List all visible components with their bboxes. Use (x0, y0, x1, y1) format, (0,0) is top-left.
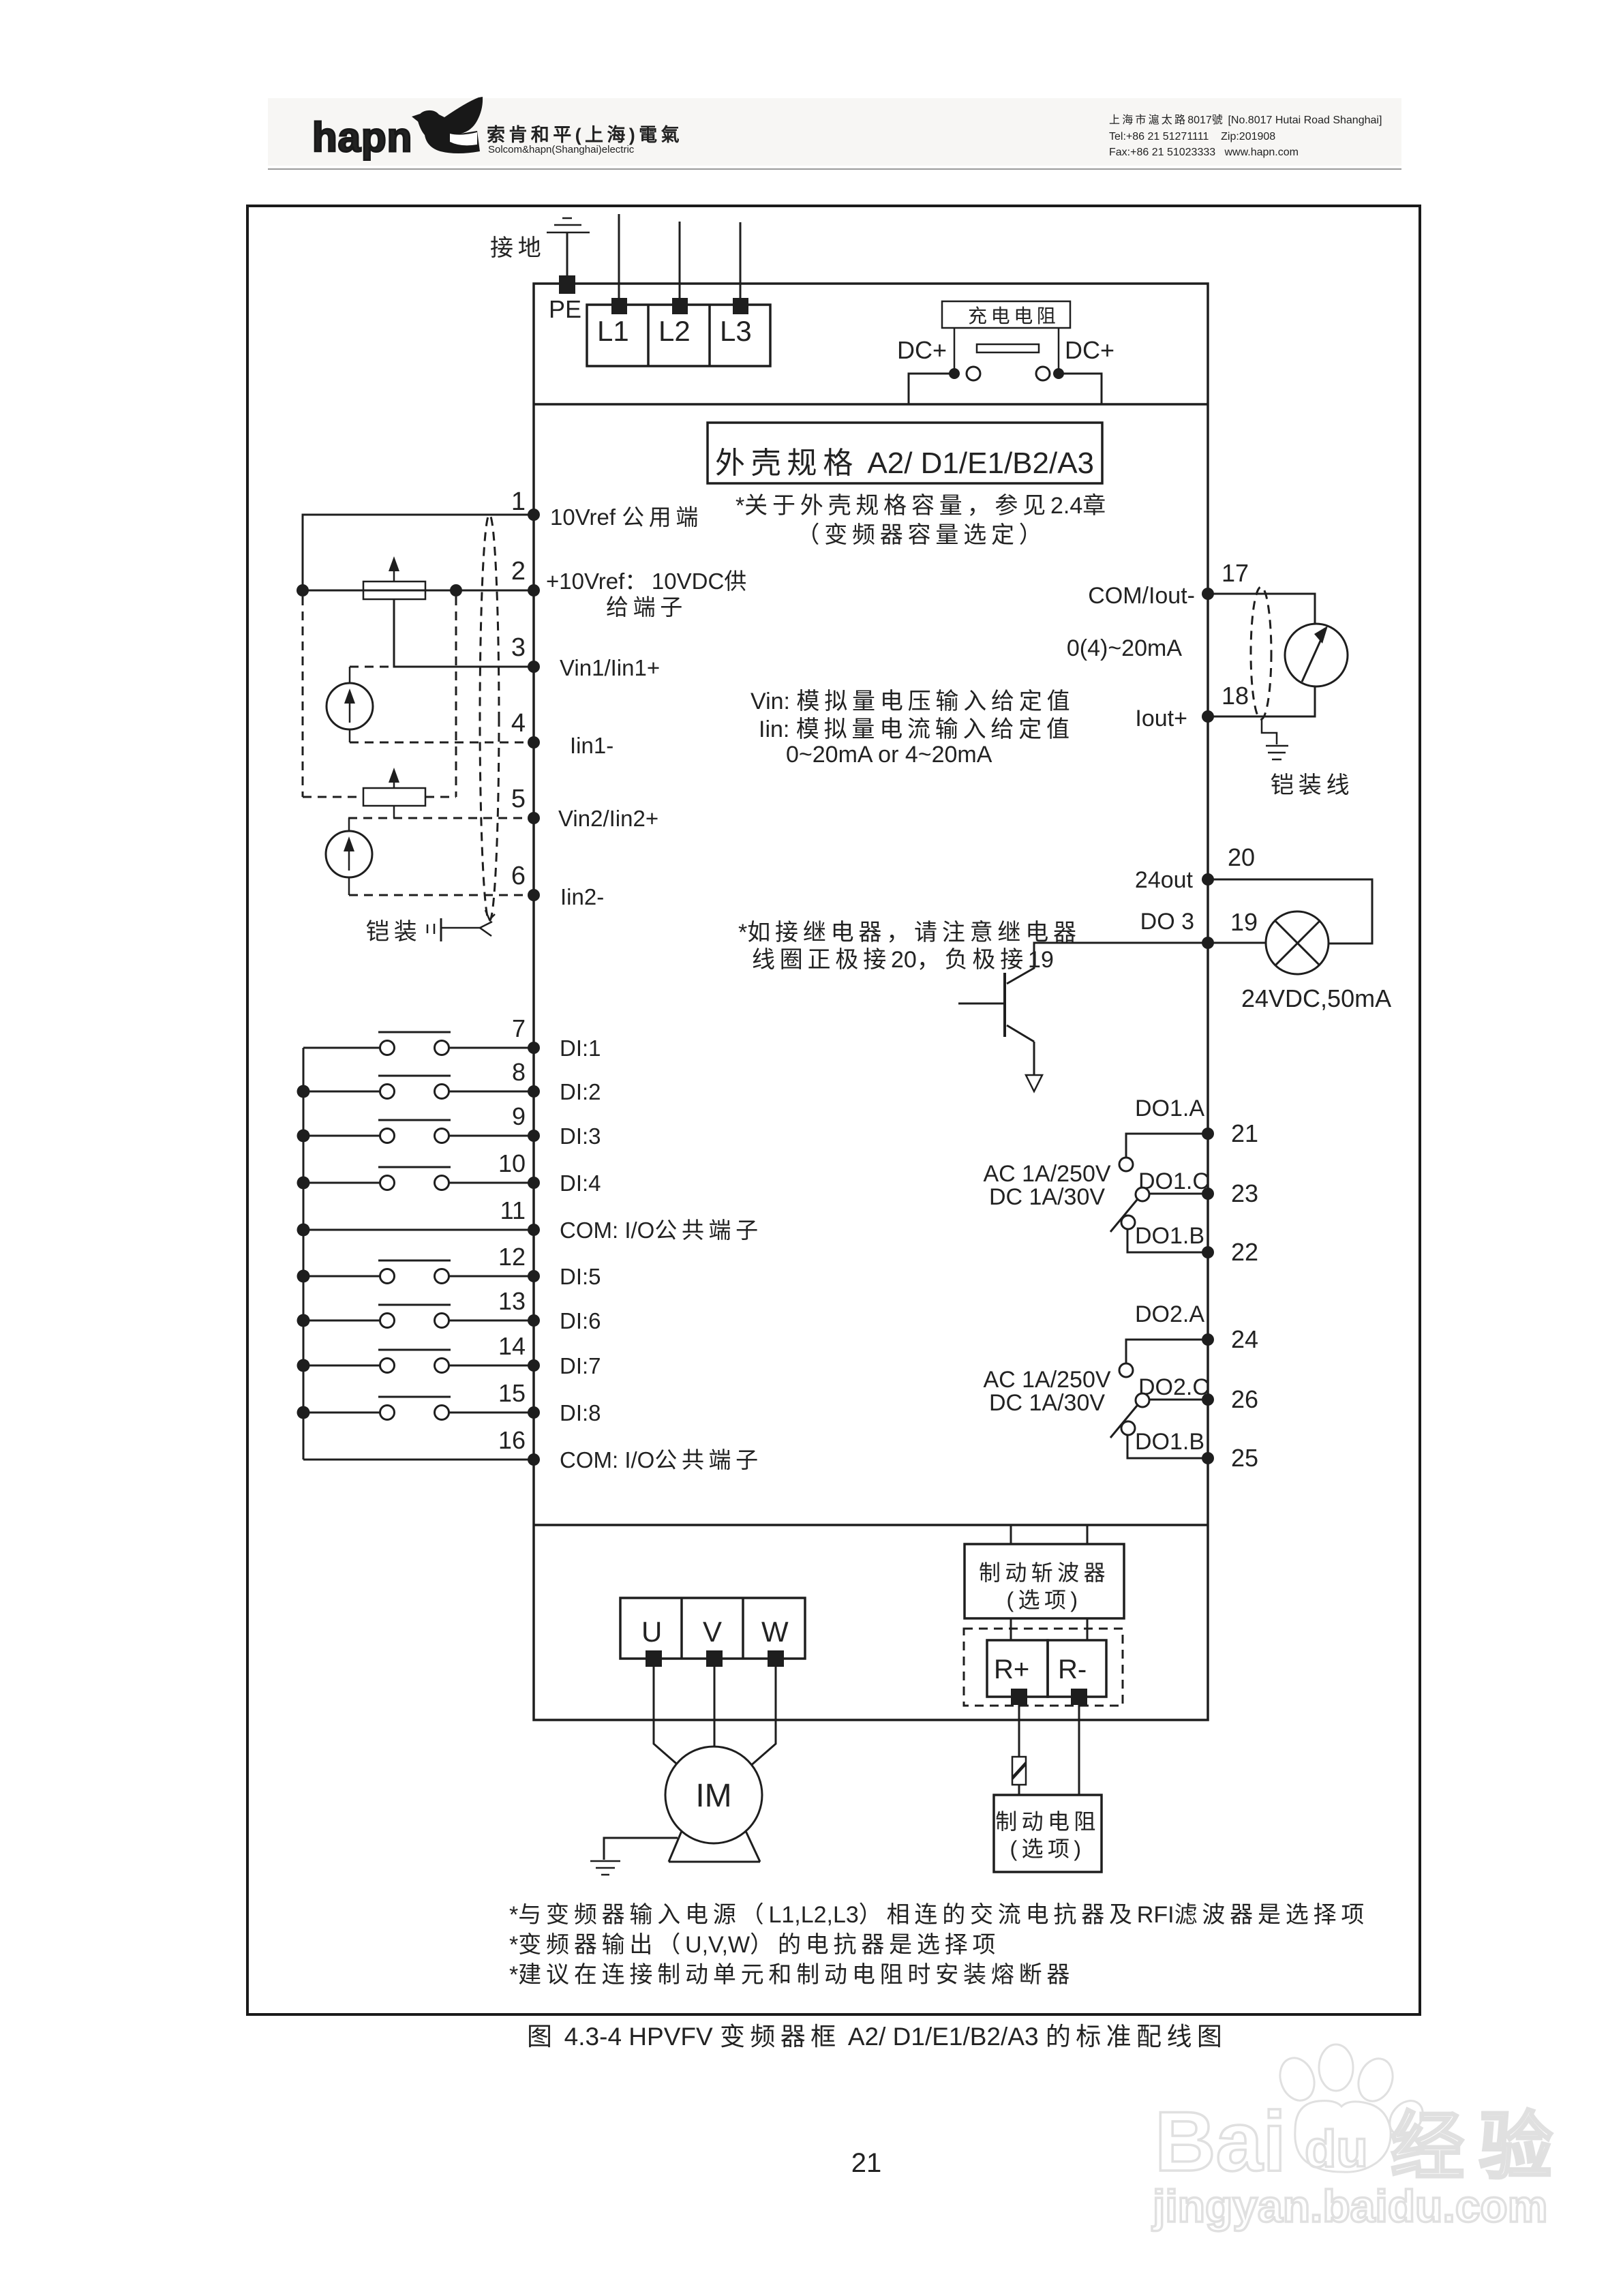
switch contact circles row 10 (380, 1176, 395, 1190)
svg-text:线圈正极接20，负极接19: 线圈正极接20，负极接19 (752, 947, 1054, 973)
transistor emitter open arrow (1026, 1075, 1042, 1091)
svg-text:COM: I/O公共端子: COM: I/O公共端子 (560, 1447, 763, 1472)
watermark baidu (1151, 2044, 1567, 2231)
terminal 7 row (303, 1047, 380, 1049)
frame size box 外壳规格 (708, 423, 1102, 483)
terminal square W (768, 1650, 784, 1667)
svg-text:6: 6 (511, 862, 526, 890)
switch lever row 12 (378, 1260, 451, 1262)
dashed drop from junction 2 right (455, 596, 457, 797)
charging resistor label box 充电电阻 (942, 301, 1070, 328)
svg-text:(选项): (选项) (1007, 1588, 1082, 1612)
shield ground symbol right (1266, 746, 1288, 759)
current source 2 (348, 818, 350, 832)
svg-text:Tel:+86 21 51271111 Zip:201: Tel:+86 21 51271111 Zip:201908 (1109, 131, 1275, 142)
terminal 5 dot (528, 812, 540, 824)
svg-text:7: 7 (512, 1014, 526, 1042)
terminal 4 dot (528, 736, 540, 749)
switch lever row 8 (378, 1075, 451, 1077)
svg-text:充电电阻: 充电电阻 (968, 305, 1059, 327)
svg-text:21: 21 (851, 2148, 882, 2178)
potentiometer P1 body (363, 581, 425, 599)
terminal 25 dot (1202, 1452, 1214, 1464)
svg-text:制动斩波器: 制动斩波器 (979, 1560, 1110, 1585)
svg-text:16: 16 (498, 1426, 526, 1454)
terminal 19 dot (1202, 937, 1214, 949)
junction dot wire2 left (297, 584, 309, 596)
svg-text:经验: 经验 (1391, 2105, 1567, 2188)
shield arrow tick (480, 922, 492, 936)
contact circle DO1.B (1121, 1215, 1135, 1229)
svg-text:V: V (703, 1616, 722, 1648)
svg-text:L1: L1 (597, 315, 629, 347)
dashed wire to terminal 4 (350, 742, 534, 744)
dashed drop from junction 2 left (302, 596, 304, 797)
svg-text:IM: IM (695, 1778, 731, 1814)
terminal 13 row (303, 1320, 380, 1322)
svg-text:24VDC,50mA: 24VDC,50mA (1241, 984, 1391, 1012)
svg-text:26: 26 (1231, 1385, 1258, 1413)
svg-text:22: 22 (1231, 1238, 1258, 1266)
dashed wire terminal 5 (348, 817, 534, 819)
svg-text:PE: PE (549, 295, 581, 323)
contact circle DO1.A (1119, 1158, 1133, 1171)
svg-text:Vin2/Iin2+: Vin2/Iin2+ (558, 806, 658, 831)
svg-text:图 4.3-4 HPVFV 变频器框 A2/ D1/E1/B: 图 4.3-4 HPVFV 变频器框 A2/ D1/E1/B2/A3 的标准配线… (527, 2023, 1227, 2051)
junction dot wire2 right (450, 584, 462, 596)
junction dot DC+ right (1053, 368, 1064, 379)
shield drain wire (1262, 719, 1277, 744)
bus junction dot row 10 (297, 1177, 310, 1190)
svg-text:11: 11 (500, 1196, 526, 1224)
wire DO1.C (1149, 1193, 1208, 1195)
svg-text:L2: L2 (658, 315, 691, 347)
transistor Q1 (1003, 973, 1006, 1037)
svg-text:L3: L3 (720, 315, 752, 347)
svg-text:DI:6: DI:6 (560, 1308, 601, 1333)
svg-text:U: U (641, 1616, 662, 1648)
shield ground marks (427, 924, 429, 933)
svg-text:DO1.B: DO1.B (1135, 1429, 1204, 1455)
svg-text:18: 18 (1222, 682, 1249, 710)
switch contact circles row 15 (380, 1406, 395, 1420)
potentiometer P1 arrow (393, 564, 395, 581)
switch lever row 7 (378, 1031, 451, 1033)
svg-text:DI:7: DI:7 (560, 1353, 601, 1378)
brake resistor box 制动电阻 (994, 1795, 1102, 1872)
svg-text:*建议在连接制动单元和制动电阻时安装熔断器: *建议在连接制动单元和制动电阻时安装熔断器 (509, 1962, 1074, 1988)
terminal 16 row (303, 1459, 534, 1461)
svg-text:Vin1/Iin1+: Vin1/Iin1+ (560, 655, 660, 680)
wire from box to DC+ right (1058, 328, 1060, 374)
switch lever row 9 (378, 1119, 451, 1121)
svg-text:9: 9 (512, 1102, 526, 1130)
svg-text:DO1.B: DO1.B (1135, 1223, 1204, 1249)
svg-text:12: 12 (498, 1243, 526, 1271)
motor wire U (654, 1667, 680, 1767)
terminal 9 row (303, 1135, 380, 1137)
wire terminal 19 to transistor (1007, 943, 1208, 984)
svg-text:*与变频器输入电源（L1,L2,L3）相连的交流电抗器及RF: *与变频器输入电源（L1,L2,L3）相连的交流电抗器及RFI滤波器是选择项 (509, 1902, 1369, 1928)
wire DC+ right down (1059, 374, 1102, 404)
dashed lead to pot P2 right (425, 796, 456, 798)
ground wire to PE (566, 232, 568, 277)
wire terminal 18 to meter (1208, 686, 1315, 716)
svg-text:5: 5 (511, 785, 526, 813)
switch lever row 13 (378, 1304, 451, 1306)
svg-text:接地: 接地 (490, 235, 546, 261)
wire terminal 20 to lamp (1208, 879, 1372, 943)
terminal 12 row (303, 1275, 380, 1278)
svg-text:R-: R- (1058, 1655, 1087, 1685)
svg-text:DC+: DC+ (897, 336, 947, 364)
bus junction dot row 12 (297, 1270, 310, 1283)
svg-text:23: 23 (1231, 1179, 1258, 1207)
terminal 9 dot (528, 1130, 540, 1142)
figure border frame (247, 206, 1420, 2014)
switch contact circles row 12 (380, 1269, 395, 1284)
svg-text:hapn: hapn (312, 115, 412, 160)
dashed option box around R terminals (964, 1629, 1123, 1706)
charging resistor bar (977, 344, 1039, 352)
relay DO1 moving arm (1110, 1200, 1137, 1232)
terminal 13 dot (528, 1314, 540, 1327)
terminal 23 dot (1202, 1188, 1214, 1200)
input terminal box L1 L2 L3 (587, 305, 770, 366)
terminal 8 dot (528, 1085, 540, 1098)
svg-text:DO 3: DO 3 (1140, 909, 1194, 935)
svg-text:DO1.A: DO1.A (1135, 1096, 1204, 1121)
switch contact circles row 14 (380, 1359, 395, 1373)
svg-text:21: 21 (1231, 1119, 1258, 1147)
wire fuse to resistor box (1018, 1785, 1020, 1795)
svg-text:3: 3 (511, 633, 526, 662)
svg-text:13: 13 (498, 1287, 526, 1315)
terminal PE square (559, 275, 575, 294)
terminal 11 row (303, 1229, 534, 1231)
motor pedestal (669, 1831, 760, 1862)
svg-text:8: 8 (512, 1058, 526, 1086)
header band (268, 98, 1401, 166)
wire 19 to lamp (1208, 942, 1268, 944)
open terminal left (967, 367, 980, 380)
terminal 1 dot (528, 509, 540, 521)
wire DC+ left down (909, 374, 954, 404)
terminal 14 dot (528, 1359, 540, 1372)
svg-text:+10Vref：10VDC供: +10Vref：10VDC供 (546, 569, 751, 594)
contact circle DO2.A (1119, 1363, 1133, 1377)
switch contact circles row 13 (380, 1314, 395, 1328)
wire DO1.A (1126, 1134, 1208, 1158)
terminal square R- (1071, 1689, 1087, 1705)
terminal 15 row (303, 1412, 380, 1414)
svg-text:1: 1 (511, 487, 526, 516)
svg-text:(选项): (选项) (1010, 1837, 1086, 1861)
svg-text:14: 14 (498, 1332, 526, 1360)
svg-text:（变频器容量选定）: （变频器容量选定） (796, 522, 1046, 548)
fuse F1 (1012, 1757, 1026, 1785)
svg-text:15: 15 (498, 1379, 526, 1407)
svg-text:索肯和平(上海)電氣: 索肯和平(上海)電氣 (487, 125, 683, 145)
wire DO2.A (1126, 1340, 1208, 1363)
open terminal right (1036, 367, 1050, 380)
svg-text:Vin: 模拟量电压输入给定值: Vin: 模拟量电压输入给定值 (750, 689, 1074, 714)
device bottom division line (534, 1524, 1208, 1526)
switch contact circles row 9 (380, 1129, 395, 1143)
motor wire V (714, 1667, 716, 1747)
wire terminal 2 (303, 590, 534, 592)
terminal 26 dot (1202, 1393, 1214, 1406)
terminal 22 dot (1202, 1246, 1214, 1258)
svg-text:DC+: DC+ (1065, 336, 1114, 364)
svg-text:AC 1A/250V: AC 1A/250V (983, 1161, 1110, 1187)
switch lever row 14 (378, 1349, 451, 1351)
svg-text:*如接继电器，请注意继电器: *如接继电器，请注意继电器 (738, 920, 1081, 946)
wire R- down (1078, 1705, 1080, 1795)
terminal 8 row (303, 1091, 380, 1093)
svg-text:W: W (761, 1616, 789, 1648)
terminal 12 dot (528, 1270, 540, 1282)
wire DO2.C (1149, 1399, 1208, 1401)
svg-text:Fax:+86 21 51023333 www.hapn: Fax:+86 21 51023333 www.hapn.com (1109, 147, 1299, 158)
terminal square V (706, 1650, 723, 1667)
terminal 24 dot (1202, 1333, 1214, 1346)
switch contact circles row 8 (380, 1085, 395, 1099)
dashed link wiper to current source 1 (350, 666, 394, 668)
svg-text:4: 4 (511, 709, 526, 738)
current source 1 (349, 667, 351, 684)
terminal 10 dot (528, 1177, 540, 1189)
svg-text:DC 1A/30V: DC 1A/30V (989, 1184, 1105, 1210)
svg-text:10: 10 (498, 1149, 526, 1177)
terminal 18 dot (1202, 710, 1214, 723)
dashed wire terminal 6 (349, 894, 534, 896)
svg-text:R+: R+ (994, 1655, 1029, 1685)
supply wire L1 (618, 214, 620, 298)
contact circle DO2.B (1121, 1421, 1135, 1435)
svg-text:10Vref 公用端: 10Vref 公用端 (550, 504, 703, 530)
svg-text:Iin2-: Iin2- (560, 884, 604, 909)
svg-text:*关于外壳规格容量，参见2.4章: *关于外壳规格容量，参见2.4章 (735, 493, 1110, 519)
device top division line (534, 403, 1208, 406)
shield ellipse right (1251, 587, 1271, 719)
svg-text:铠装: 铠装 (366, 919, 422, 945)
svg-text:Iin1-: Iin1- (570, 733, 613, 758)
contact circle DO2.C (1136, 1393, 1149, 1407)
terminal 2 dot (528, 584, 540, 596)
terminal square L1 (611, 298, 627, 314)
switch lever row 15 (378, 1396, 451, 1398)
terminal square U (646, 1650, 662, 1667)
svg-text:铠装线: 铠装线 (1271, 772, 1354, 798)
junction dot DC+ left (949, 368, 960, 379)
svg-text:制动电阻: 制动电阻 (995, 1809, 1100, 1834)
motor ground wire (604, 1838, 678, 1860)
bus junction dot row 11 (297, 1224, 310, 1237)
potentiometer P2 body (363, 788, 425, 806)
svg-text:DI:8: DI:8 (560, 1400, 601, 1425)
bus junction dot row 14 (297, 1359, 310, 1372)
svg-text:DC 1A/30V: DC 1A/30V (989, 1390, 1105, 1416)
svg-text:24out: 24out (1135, 867, 1194, 893)
svg-text:DI:5: DI:5 (560, 1264, 601, 1289)
motor ground symbol (590, 1861, 620, 1875)
svg-text:24: 24 (1231, 1325, 1258, 1353)
potentiometer P2 wiper (393, 806, 395, 818)
terminal 10 row (303, 1182, 380, 1184)
DI common bus (303, 1048, 305, 1460)
wire terminal1 to pot (303, 515, 534, 590)
svg-text:0~20mA or 4~20mA: 0~20mA or 4~20mA (786, 742, 992, 768)
bus junction dot row 15 (297, 1406, 310, 1419)
svg-text:AC 1A/250V: AC 1A/250V (983, 1367, 1110, 1393)
lamp 24VDC (1266, 911, 1329, 974)
svg-text:COM/Iout-: COM/Iout- (1088, 583, 1195, 609)
terminal square L3 (733, 298, 748, 314)
earth ground symbol top (547, 218, 590, 232)
svg-text:2: 2 (511, 557, 526, 586)
terminal 15 dot (528, 1406, 540, 1419)
logo dove icon (417, 97, 483, 153)
svg-text:外壳规格 A2/ D1/E1/B2/A3: 外壳规格 A2/ D1/E1/B2/A3 (715, 447, 1094, 480)
svg-text:DI:2: DI:2 (560, 1079, 601, 1104)
bus junction dot row 9 (297, 1130, 310, 1143)
dashed lead to pot P2 left (303, 796, 363, 798)
terminal box R+ (987, 1640, 1048, 1697)
terminal 21 dot (1202, 1128, 1214, 1140)
svg-text:25: 25 (1231, 1444, 1258, 1472)
brake chopper wires top (1010, 1526, 1012, 1544)
svg-text:20: 20 (1228, 843, 1255, 871)
switch lever row 10 (378, 1166, 451, 1168)
svg-text:给端子: 给端子 (606, 594, 687, 620)
svg-text:COM: I/O公共端子: COM: I/O公共端子 (560, 1218, 763, 1243)
bus junction dot row 8 (297, 1085, 310, 1098)
shield ground lead (441, 927, 480, 929)
wire DO1.B (1127, 1229, 1208, 1252)
potentiometer P1 wiper wire to terminal 3 (394, 599, 534, 667)
wire terminal 17 to meter (1208, 594, 1315, 624)
header underline (268, 168, 1401, 170)
svg-text:Solcom&hapn(Shanghai)electric: Solcom&hapn(Shanghai)electric (488, 144, 635, 155)
svg-text:DI:3: DI:3 (560, 1123, 601, 1149)
motor wire W (749, 1667, 776, 1767)
svg-text:上海市滬太路8017號 [No.8017 Hutai Roa: 上海市滬太路8017號 [No.8017 Hutai Road Shanghai… (1109, 114, 1382, 126)
svg-text:DI:4: DI:4 (560, 1170, 601, 1196)
terminal 14 row (303, 1365, 380, 1367)
svg-text:*变频器输出（U,V,W）的电抗器是选择项: *变频器输出（U,V,W）的电抗器是选择项 (509, 1932, 1000, 1958)
potentiometer P2 arrow (393, 779, 395, 788)
wire DO2.B (1127, 1435, 1208, 1458)
svg-text:Iout+: Iout+ (1135, 706, 1187, 731)
output terminal box U V W (620, 1598, 805, 1659)
terminal box R- (1048, 1640, 1106, 1697)
svg-text:du: du (1305, 2120, 1368, 2178)
terminal 16 dot (528, 1453, 540, 1466)
ammeter (1285, 624, 1348, 686)
svg-text:17: 17 (1222, 559, 1249, 587)
terminal 11 dot (528, 1224, 540, 1236)
terminal square R+ (1011, 1689, 1027, 1705)
svg-text:jingyan.baidu.com: jingyan.baidu.com (1151, 2181, 1547, 2231)
wire R+ to fuse (1018, 1705, 1020, 1757)
supply wire L2 (679, 222, 681, 298)
switch contact circles row 7 (380, 1041, 395, 1055)
terminal square L2 (672, 298, 688, 314)
svg-text:0(4)~20mA: 0(4)~20mA (1067, 635, 1182, 661)
bus junction dot row 13 (297, 1314, 310, 1327)
terminal 20 dot (1202, 873, 1214, 886)
svg-text:Bai: Bai (1155, 2095, 1286, 2189)
shield ellipse left (480, 515, 499, 921)
wire from box to DC+ left (954, 328, 956, 374)
svg-text:19: 19 (1230, 908, 1258, 936)
motor IM (665, 1747, 762, 1843)
relay DO2 moving arm (1110, 1406, 1137, 1438)
supply wire L3 (740, 222, 742, 298)
svg-text:DO2.A: DO2.A (1135, 1301, 1204, 1327)
terminal 3 dot (528, 661, 540, 673)
terminal 17 dot (1202, 588, 1214, 600)
chopper to R wires (1010, 1618, 1012, 1640)
contact circle DO1.C (1136, 1188, 1149, 1201)
terminal 7 dot (528, 1042, 540, 1054)
terminal 6 dot (528, 889, 540, 901)
brake chopper box 制动斩波器 (965, 1544, 1124, 1618)
svg-text:Iin: 模拟量电流输入给定值: Iin: 模拟量电流输入给定值 (759, 716, 1074, 742)
device box (534, 284, 1208, 1720)
svg-text:DI:1: DI:1 (560, 1036, 601, 1061)
